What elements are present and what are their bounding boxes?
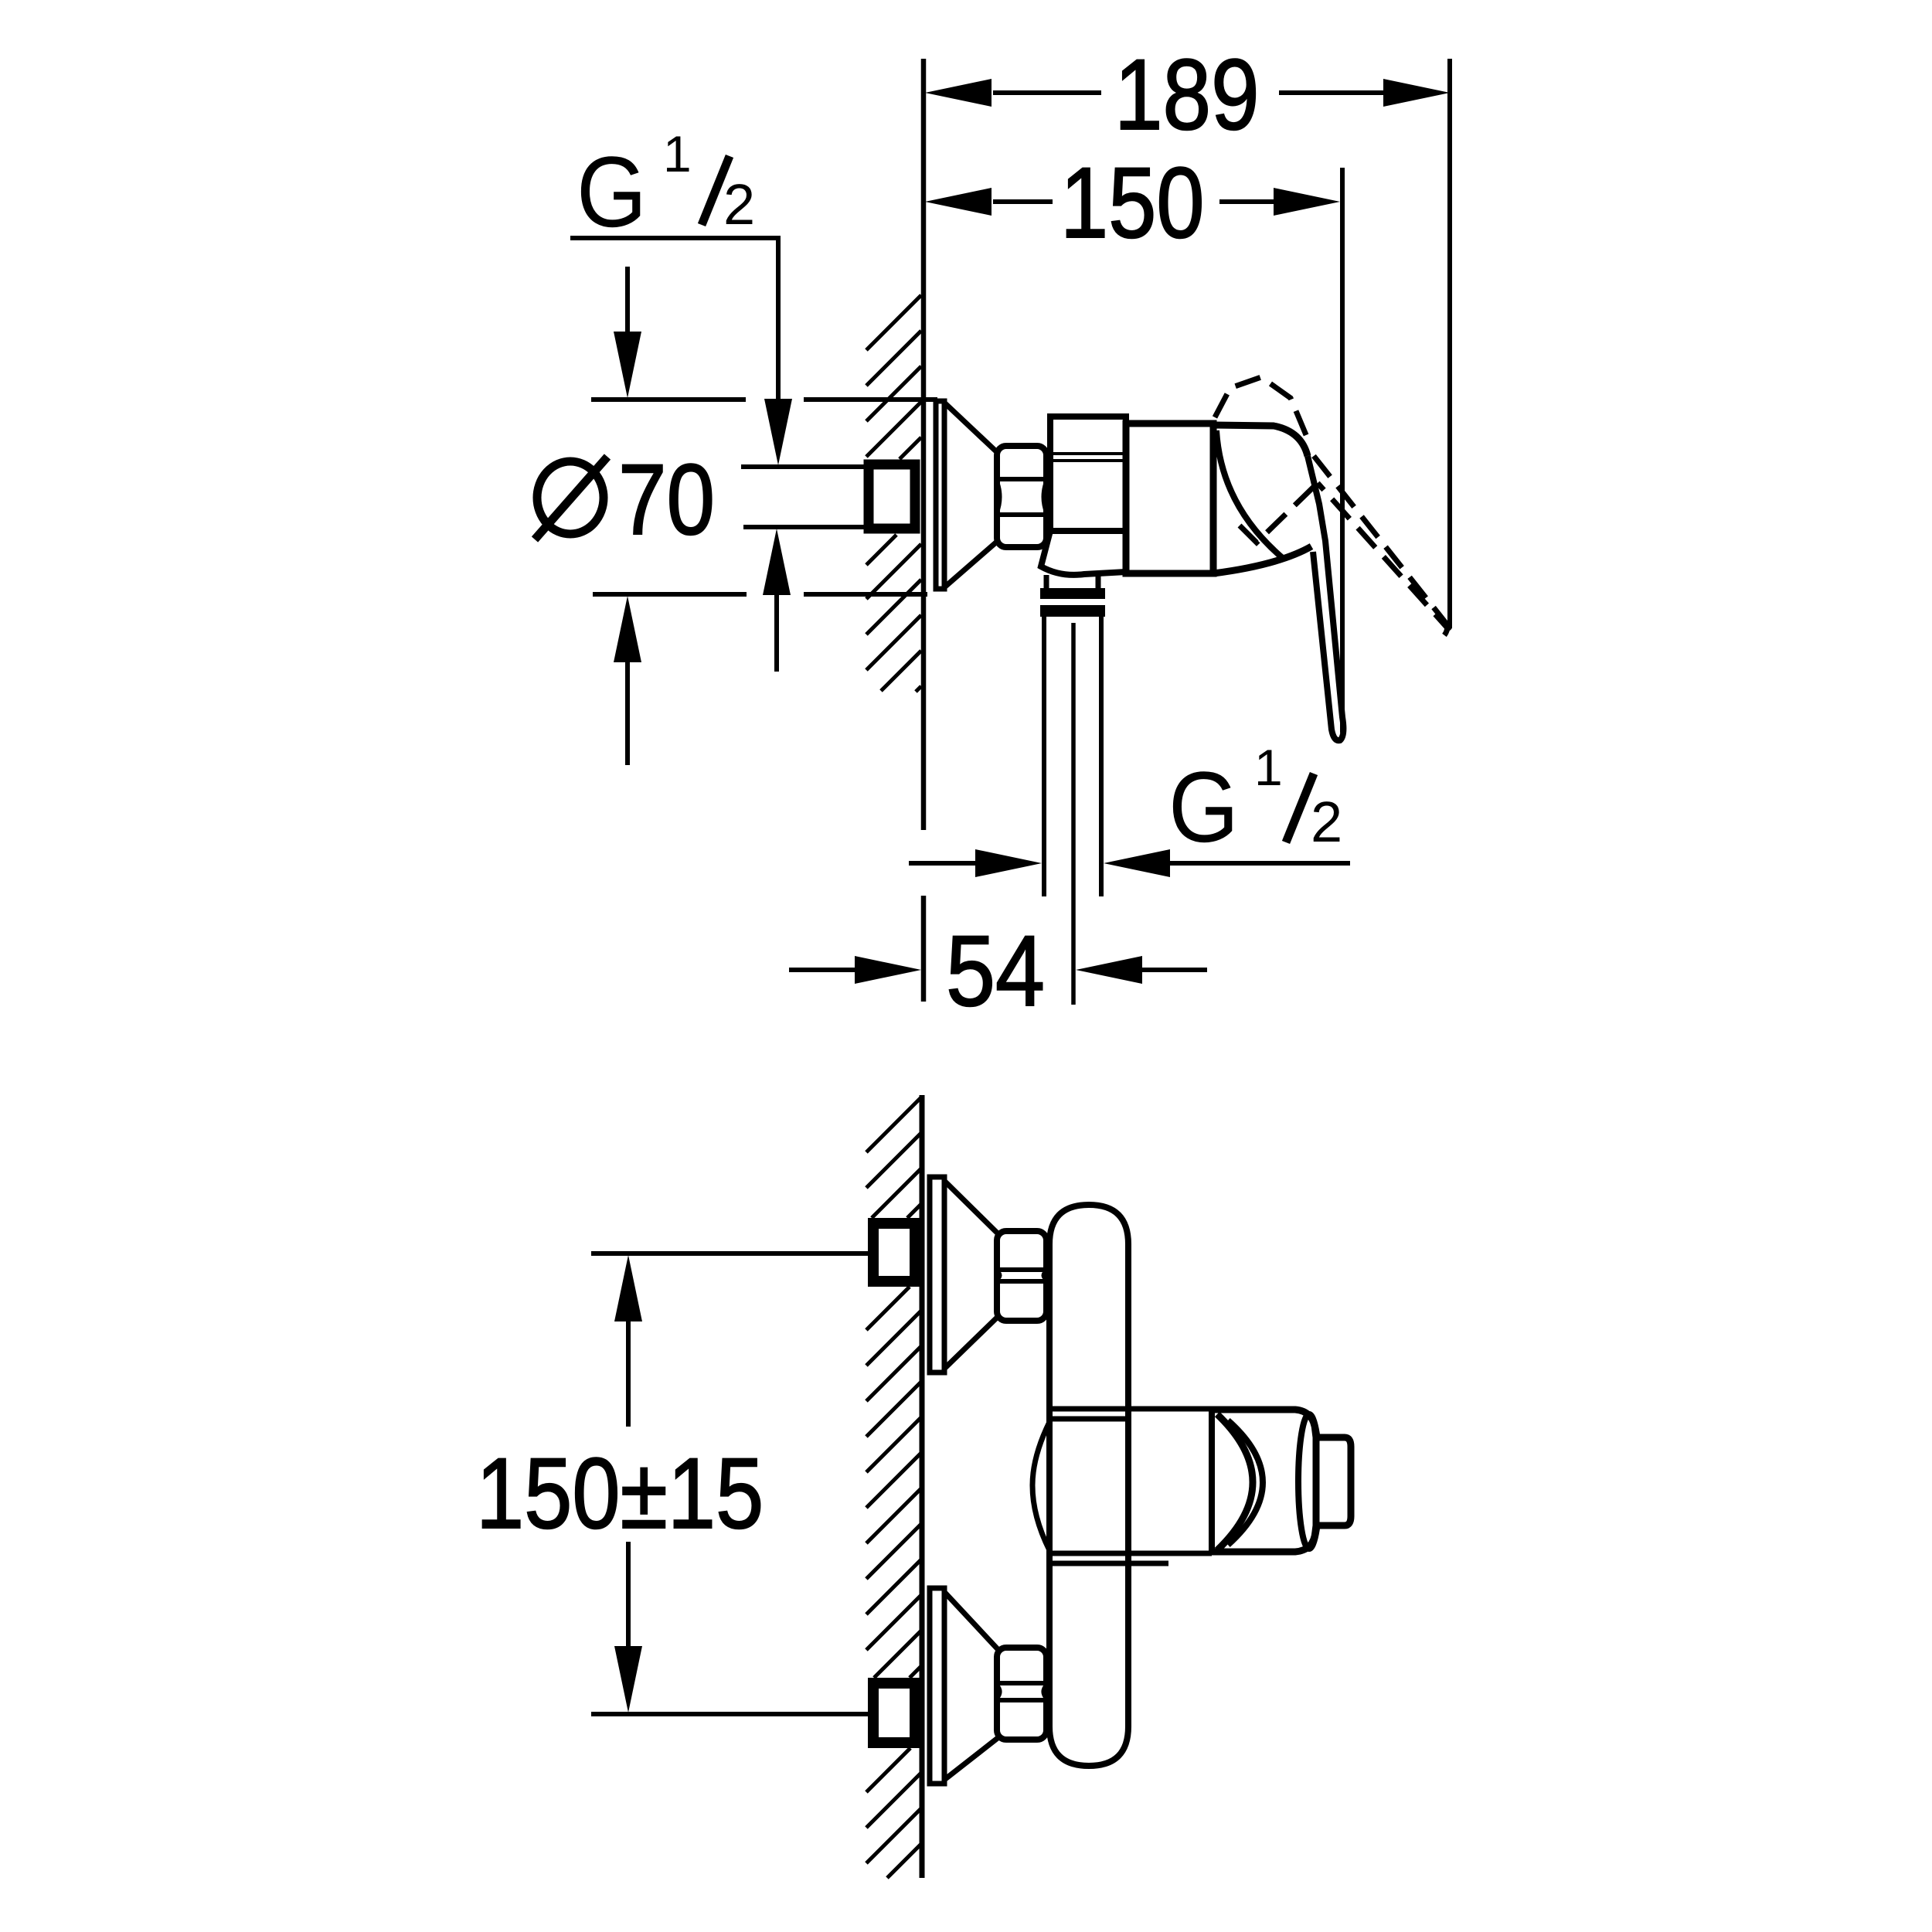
- valve cylinder lines (front view): [1049, 1409, 1212, 1563]
- wall hatching (side view): [866, 295, 921, 692]
- dimension 150+-15 bottom extension line: [591, 1712, 873, 1716]
- dimension 150 right arrow: [1274, 188, 1340, 216]
- handle cap (side view): [1213, 425, 1308, 456]
- dimension G 1/2 (hose) fraction slash: [1286, 774, 1314, 842]
- dimension G 1/2 (hose) text: [1168, 739, 1342, 863]
- dimension 54 line right: [1141, 968, 1207, 972]
- svg-text:G: G: [577, 136, 647, 248]
- handle underside (side view): [1213, 546, 1311, 573]
- supply pipe nipple (side view): [741, 467, 864, 527]
- svg-text:150±15: 150±15: [476, 1437, 764, 1549]
- dimension 150+-15 down arrow: [614, 1646, 642, 1713]
- shower hose (side view): [1044, 617, 1101, 896]
- label G 1/2 (top) fraction slash: [702, 156, 730, 225]
- handle knob dome crescent arcs (front view): [1217, 1414, 1253, 1550]
- svg-text:1: 1: [1254, 739, 1283, 796]
- upper union nut (front view): [997, 1231, 1046, 1321]
- handle knob end ellipse (front view): [1298, 1414, 1320, 1549]
- G 1/2 pipe bottom arrow tail: [774, 594, 779, 672]
- svg-text:189: 189: [1114, 38, 1260, 150]
- upper supply square fitting (front view): [873, 1223, 915, 1281]
- handle dome edge arc (side view): [1216, 430, 1284, 560]
- wall line (side view): [921, 59, 927, 1002]
- dimension 150+-15 top extension line: [591, 1251, 873, 1256]
- dimension 150+-15 down arrow tail: [626, 1542, 631, 1648]
- dimension 189 left arrow: [925, 79, 992, 107]
- dimension 150+-15 up arrow: [614, 1255, 642, 1321]
- dimension O70 symbol: [537, 461, 604, 534]
- svg-text:2: 2: [1311, 790, 1342, 854]
- dimension O70 bottom arrow (up): [614, 596, 641, 662]
- dimension G 1/2 (hose) left arrow: [975, 849, 1042, 877]
- mixer body capsule (front view): [1049, 1205, 1128, 1766]
- valve cylinder right edge (front view): [1209, 1409, 1215, 1553]
- dimension O70 bottom extension line: [593, 592, 927, 597]
- label G 1/2 (top) text: [577, 125, 755, 248]
- shower outlet neck (side view): [1046, 575, 1098, 589]
- lever blade (side view): [1308, 456, 1343, 740]
- upper escutcheon back plate (front view): [930, 1177, 944, 1372]
- dimension O70 bottom arrow tail: [625, 661, 630, 765]
- dimension G 1/2 (hose) right arrow: [1104, 849, 1170, 877]
- dimension 150+-15 up arrow tail: [626, 1320, 631, 1427]
- escutcheon cone bottom edge (side view): [944, 541, 998, 587]
- hose centerline / 54 extension line: [1071, 623, 1076, 1005]
- lever raised position (dashed outline): [1215, 377, 1450, 631]
- cartridge collar (side view): [1041, 417, 1126, 575]
- dimension G 1/2 (hose) line left: [909, 861, 977, 866]
- dimension 54 right arrow (points left): [1076, 956, 1142, 984]
- union nut (side view): [997, 446, 1046, 547]
- dimension 54 left arrow (points right at wall): [855, 956, 921, 984]
- dimension 189 right extension line: [1447, 59, 1452, 628]
- svg-text:150: 150: [1060, 146, 1205, 259]
- label G 1/2 (top) leader line: [570, 238, 778, 399]
- lower escutcheon cone edges (front view): [944, 1592, 998, 1780]
- dimension G 1/2 (hose) line right: [1168, 861, 1350, 866]
- mixer body (side view): [1126, 423, 1213, 573]
- svg-text:1: 1: [663, 125, 692, 182]
- dimension 150 line: [993, 199, 1274, 204]
- supply elbow arc behind capsule (front view): [1032, 1422, 1049, 1550]
- lower union nut (front view): [997, 1648, 1046, 1740]
- lower supply square fitting (front view): [873, 1683, 915, 1743]
- dimension 189 right arrow: [1383, 79, 1450, 107]
- svg-text:G: G: [1168, 751, 1239, 863]
- dimension 150 right extension line: [1340, 168, 1345, 733]
- dimension O70 top arrow (down): [614, 332, 641, 398]
- dimension 150 left arrow: [925, 188, 992, 216]
- dimension 189 line: [993, 90, 1383, 95]
- handle knob outline (front view): [1212, 1410, 1316, 1552]
- escutcheon back plate (side view): [936, 401, 944, 589]
- G 1/2 pipe bottom arrow (up): [763, 529, 791, 595]
- G 1/2 pipe top arrow (down): [764, 399, 792, 465]
- svg-text:2: 2: [723, 172, 755, 236]
- dimension 54 line left: [789, 968, 856, 972]
- dimension O70 top extension line: [591, 397, 937, 402]
- dimension O70 top arrow tail: [625, 267, 630, 333]
- upper escutcheon cone edges (front view): [944, 1181, 998, 1369]
- wall hatching (front view): [866, 1097, 921, 1878]
- supply pipe square fitting (side view): [869, 464, 915, 529]
- lower escutcheon back plate (front view): [930, 1588, 944, 1784]
- shower hose union nut (side view): [1040, 588, 1105, 599]
- wall line (front view): [920, 1095, 925, 1878]
- svg-text:70: 70: [618, 443, 715, 555]
- svg-text:54: 54: [946, 916, 1045, 1028]
- handle knob nub (front view): [1316, 1437, 1351, 1526]
- lever raised position dashed tip: [1440, 618, 1447, 635]
- escutcheon cone top edge (side view): [944, 403, 998, 453]
